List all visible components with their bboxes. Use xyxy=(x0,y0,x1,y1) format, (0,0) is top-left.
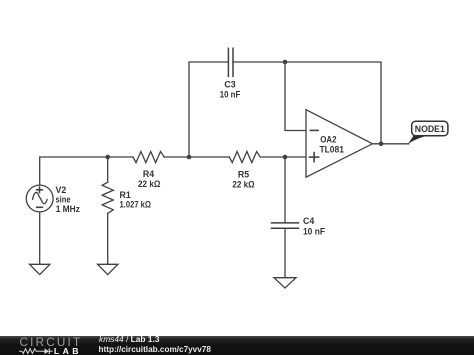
wire xyxy=(39,212,41,264)
svg-text:10 nF: 10 nF xyxy=(303,227,326,237)
node (C3/- feedback junction) xyxy=(283,60,288,65)
wire xyxy=(233,62,381,144)
svg-text:C3: C3 xyxy=(224,80,235,90)
CircuitLab logo resistor+diode glyph xyxy=(19,347,54,355)
wire xyxy=(189,62,228,157)
svg-text:R1: R1 xyxy=(120,190,131,200)
capacitor C4 xyxy=(272,223,299,228)
node (R1 tap) xyxy=(105,155,110,160)
ground (C4) xyxy=(274,278,296,288)
footer text line 2 xyxy=(99,345,211,355)
svg-text:10 nF: 10 nF xyxy=(220,90,241,100)
svg-text:R4: R4 xyxy=(143,169,154,179)
ground (R1) xyxy=(98,264,118,274)
net flag NODE1 xyxy=(408,121,448,144)
svg-text:OA2: OA2 xyxy=(320,135,336,145)
svg-text:22 kΩ: 22 kΩ xyxy=(138,179,160,189)
wire xyxy=(40,157,133,185)
wire xyxy=(107,213,109,264)
wire xyxy=(260,156,306,158)
wire xyxy=(284,228,286,277)
svg-text:1.027 kΩ: 1.027 kΩ xyxy=(120,200,152,210)
CircuitLab logo wordmark xyxy=(20,337,83,349)
footer bar xyxy=(0,336,474,355)
wire xyxy=(164,156,229,158)
CircuitLab logo LAB xyxy=(54,347,82,355)
svg-text:1 MHz: 1 MHz xyxy=(56,204,81,214)
svg-text:22 kΩ: 22 kΩ xyxy=(232,180,254,190)
wire xyxy=(373,143,409,145)
svg-text:TL081: TL081 xyxy=(320,145,344,155)
voltage source V2 xyxy=(26,185,53,212)
node A (R4/R5/C3 junction) xyxy=(187,155,192,160)
svg-text:NODE1: NODE1 xyxy=(415,124,445,134)
footer text line 1 xyxy=(99,335,160,345)
svg-text:R5: R5 xyxy=(238,169,249,179)
node B (R5/C4/+ junction) xyxy=(283,155,288,160)
op-amp OA2 xyxy=(306,110,373,178)
node (output junction) xyxy=(379,142,384,147)
wire xyxy=(285,62,306,131)
wire xyxy=(107,157,109,182)
ground (V2) xyxy=(30,264,50,274)
resistor R1 xyxy=(102,182,113,213)
svg-text:C4: C4 xyxy=(303,216,314,226)
resistor R5 xyxy=(229,152,260,163)
resistor R4 xyxy=(133,152,164,163)
capacitor C3 xyxy=(228,48,233,76)
wire xyxy=(284,157,286,223)
